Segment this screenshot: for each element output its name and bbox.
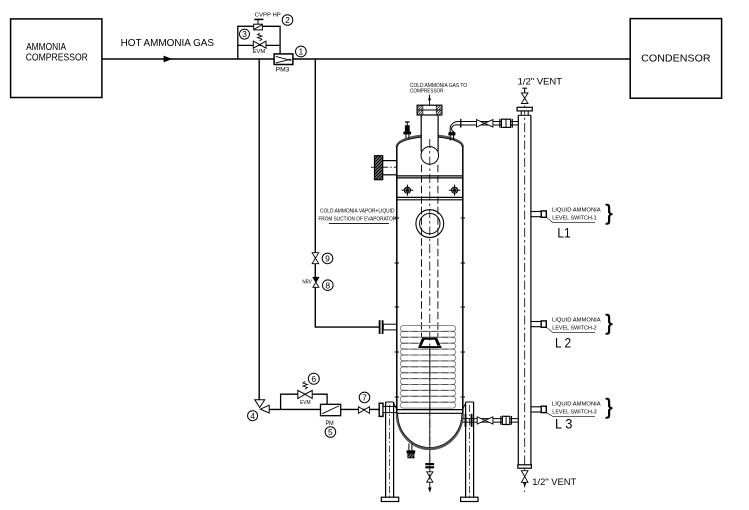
- svg-text:HOT AMMONIA GAS: HOT AMMONIA GAS: [121, 38, 214, 49]
- valve PM3: [274, 54, 293, 65]
- svg-text:EVM: EVM: [253, 49, 266, 55]
- vessel neck: [421, 115, 438, 139]
- node 5: [325, 427, 336, 438]
- flange suction nozzle: [379, 320, 381, 334]
- node 2: [282, 15, 293, 26]
- valve EVM solenoid bottom: [303, 382, 307, 390]
- valve CVPP HP: [254, 24, 263, 30]
- svg-text:LEVEL SWITCH-3: LEVEL SWITCH-3: [552, 410, 596, 416]
- svg-text:1/2" VENT: 1/2" VENT: [532, 477, 576, 487]
- nozzle dome right: [449, 131, 451, 141]
- svg-text:3: 3: [242, 29, 247, 39]
- box AMMONIA COMPRESSOR: [11, 19, 102, 98]
- node 1: [296, 46, 307, 57]
- svg-text:7: 7: [362, 393, 367, 403]
- level column: [517, 115, 519, 468]
- valve 4 angle valve: [255, 400, 265, 408]
- flow arrow on main line: [164, 56, 173, 63]
- leader line for label: [329, 223, 389, 225]
- svg-text:LIQUID AMMONIA: LIQUID AMMONIA: [552, 402, 601, 408]
- pipe vent header double line: [460, 121, 518, 123]
- node 8: [323, 280, 334, 291]
- wire bypass loop top assembly: [238, 26, 280, 59]
- hidden internal riser lines: [421, 165, 423, 337]
- tap level switch 3: [531, 406, 541, 408]
- node 3: [240, 29, 250, 39]
- svg-text:5: 5: [328, 427, 333, 437]
- svg-text:LEVEL SWITCH-2: LEVEL SWITCH-2: [552, 326, 596, 332]
- valve NRV check: [313, 277, 319, 282]
- svg-text:COLD AMMONIA VAPOR+LIQUID: COLD AMMONIA VAPOR+LIQUID: [320, 208, 395, 214]
- svg-text:L1: L1: [557, 226, 570, 241]
- svg-text:}: }: [605, 310, 612, 335]
- drain small left: [408, 444, 410, 451]
- valve EVM solenoid top: [258, 33, 262, 41]
- internal drain line: [429, 347, 431, 463]
- svg-text:4: 4: [250, 411, 255, 421]
- svg-text:}: }: [605, 200, 612, 225]
- drain center: [425, 463, 434, 465]
- svg-text:PM3: PM3: [276, 67, 290, 74]
- svg-text:LIQUID AMMONIA: LIQUID AMMONIA: [552, 208, 601, 214]
- box CONDENSOR: [630, 19, 721, 99]
- svg-text:9: 9: [325, 254, 330, 264]
- svg-text:CONDENSOR: CONDENSOR: [641, 52, 711, 64]
- svg-text:}: }: [605, 394, 612, 419]
- wire suction branch drop line: [314, 59, 316, 253]
- nozzle dome left: [405, 127, 407, 139]
- node 9: [322, 253, 333, 264]
- bolt symbol left: [402, 185, 414, 196]
- svg-text:AMMONIA: AMMONIA: [26, 42, 66, 53]
- svg-text:L 2: L 2: [555, 336, 571, 351]
- valve vent top: [521, 93, 528, 98]
- wire main hot gas line: [102, 58, 631, 60]
- vessel shell walls: [396, 146, 398, 414]
- coil tube mid lines: [402, 331, 455, 402]
- vessel bottom head: [397, 414, 463, 450]
- column top flange: [520, 111, 522, 115]
- nozzle vessel upper-left with flange: [375, 156, 383, 180]
- svg-text:FROM SUCTION OF EVAPORATOR: FROM SUCTION OF EVAPORATOR: [318, 217, 396, 223]
- valve on vent header: [477, 120, 485, 127]
- svg-text:CVPP HP: CVPP HP: [255, 13, 281, 19]
- svg-text:1: 1: [299, 47, 304, 57]
- pipe vessel to column bottom: [463, 418, 519, 420]
- tap level switch 1: [531, 211, 541, 213]
- valve vent bottom: [521, 471, 528, 477]
- svg-text:COMPRESSOR: COMPRESSOR: [410, 89, 444, 95]
- svg-text:EVM: EVM: [300, 400, 311, 406]
- node 4: [248, 411, 258, 421]
- svg-text:NRV: NRV: [302, 280, 312, 286]
- svg-text:1/2" VENT: 1/2" VENT: [518, 77, 563, 88]
- wire liquid feed drop line: [258, 59, 260, 400]
- column bottom flange: [518, 465, 532, 468]
- coil heat exchanger: [400, 326, 455, 409]
- girth flange band 2: [397, 196, 463, 198]
- bottom band: [397, 409, 463, 411]
- valve 9 shutoff: [312, 253, 319, 259]
- pipe stub bottom-left nozzle: [383, 406, 397, 412]
- wire bottom bypass loop: [281, 394, 328, 409]
- valve PM bottom: [321, 404, 341, 415]
- valve on bottom pipe: [477, 417, 485, 424]
- centerline above flange with arrow: [429, 95, 431, 106]
- svg-text:COMPRESSOR: COMPRESSOR: [26, 53, 88, 64]
- circle side inlet: [416, 210, 444, 238]
- vessel centerline: [429, 139, 431, 461]
- svg-text:LIQUID AMMONIA: LIQUID AMMONIA: [552, 318, 601, 324]
- flange vessel top: [417, 105, 442, 115]
- pipe elbow to vent column: [450, 122, 460, 133]
- svg-text:8: 8: [325, 280, 330, 290]
- tap level switch 2: [531, 321, 541, 323]
- vessel top dome: [397, 136, 463, 148]
- svg-text:L 3: L 3: [555, 417, 572, 432]
- column centerline: [524, 88, 526, 492]
- circle dome manway: [421, 147, 439, 165]
- leg left: [385, 402, 387, 497]
- flange bottom-left nozzle: [379, 403, 383, 416]
- valve 7 shutoff: [358, 407, 364, 414]
- distributor funnel: [419, 339, 440, 346]
- wire bottom feed line: [269, 408, 379, 410]
- girth flange band 1: [397, 175, 463, 177]
- svg-text:6: 6: [311, 374, 316, 384]
- node 7: [359, 392, 370, 403]
- weld ticks on shell walls: [395, 218, 465, 397]
- svg-text:LEVEL SWITCH-1: LEVEL SWITCH-1: [552, 216, 596, 222]
- node 6: [308, 373, 319, 384]
- pipe stub into vessel mid-left nozzle: [383, 324, 397, 330]
- svg-text:2: 2: [285, 15, 290, 25]
- union on vent header: [499, 119, 501, 128]
- bolt symbol right: [449, 185, 461, 196]
- wire EVM branch line: [238, 44, 280, 46]
- union on bottom pipe: [500, 416, 502, 425]
- leg right: [465, 402, 467, 497]
